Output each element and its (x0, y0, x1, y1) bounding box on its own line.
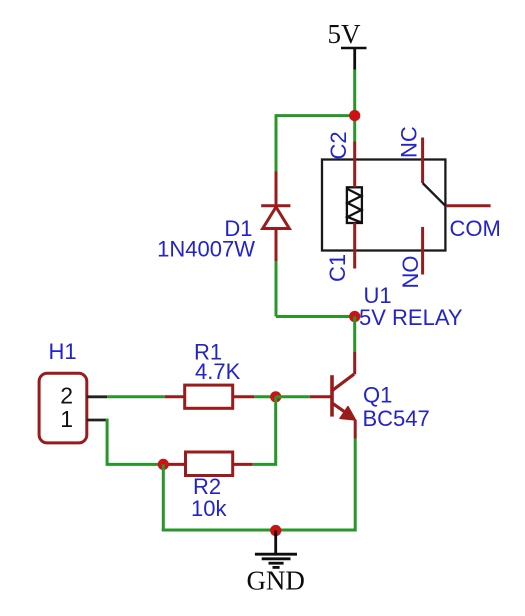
pin NC (421, 138, 424, 184)
pin COM (445, 204, 490, 207)
wire H1 pin1 down and right (107, 419, 163, 465)
svg-text:C2: C2 (326, 131, 351, 159)
svg-text:H1: H1 (49, 339, 77, 364)
relay U1 body (322, 160, 445, 251)
diode D1 (261, 172, 290, 262)
svg-text:COM: COM (450, 216, 501, 241)
junction R2 left node (158, 459, 169, 470)
relay switch lever (423, 183, 446, 206)
pin NO (421, 227, 424, 275)
svg-text:2: 2 (60, 383, 73, 409)
svg-text:1N4007W: 1N4007W (157, 237, 255, 262)
pin 2 stub (87, 395, 107, 398)
pin 1 stub (87, 419, 107, 422)
power 5V (328, 19, 367, 70)
wire diode bottom vertical (275, 261, 278, 317)
pin C2 (353, 142, 356, 188)
wire 5V vertical to junction and relay C2 (353, 70, 356, 142)
junction base node (270, 391, 281, 402)
connector H1 (39, 373, 87, 443)
svg-text:4.7K: 4.7K (195, 359, 241, 384)
wire R2 junction down to rail (162, 464, 165, 531)
wire ground rail (162, 529, 355, 532)
wire emitter to ground rail (354, 439, 357, 532)
wire 5V horizontal to diode (276, 114, 355, 117)
wire junction down to R2 right (253, 397, 276, 465)
wire R1 to junction (254, 395, 276, 398)
relay coil (347, 187, 362, 223)
svg-text:BC547: BC547 (363, 406, 430, 431)
svg-text:NC: NC (397, 126, 422, 158)
svg-text:1: 1 (60, 406, 73, 432)
svg-text:5V RELAY: 5V RELAY (359, 305, 463, 330)
svg-text:GND: GND (246, 565, 305, 595)
ground (246, 531, 305, 596)
svg-text:5V: 5V (328, 19, 362, 49)
junction 5V node (349, 110, 360, 121)
wire diode bottom horizontal to junction (276, 315, 355, 318)
svg-text:10k: 10k (191, 496, 227, 521)
wire junction to collector (353, 317, 356, 352)
svg-text:NO: NO (398, 256, 423, 289)
svg-text:Q1: Q1 (363, 383, 392, 408)
wire diode top vertical (275, 114, 278, 171)
wire junction to base (276, 395, 310, 398)
pin C1 (353, 223, 356, 269)
junction diode/collector node (349, 311, 360, 322)
junction ground node (270, 525, 281, 536)
resistor R1 (165, 385, 254, 408)
resistor R2 (163, 452, 252, 476)
svg-text:C1: C1 (325, 254, 350, 282)
wire H1 pin2 to R1 (107, 395, 165, 398)
transistor Q1 (310, 352, 356, 439)
